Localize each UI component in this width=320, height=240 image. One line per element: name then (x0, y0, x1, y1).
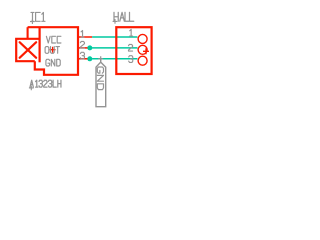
IC1 pin 3 number (80, 52, 84, 59)
connector origin cross (143, 48, 149, 54)
IC1 pin 1 stub (78, 36, 92, 38)
IC1 pin 3 stub (78, 58, 92, 60)
connector pin 2 circle (138, 45, 147, 54)
IC1 left edge segment (38, 27, 40, 62)
connector pin 1 number (130, 29, 133, 36)
GND supply symbol (96, 56, 106, 106)
junction dot net 3 (87, 56, 92, 61)
hall element top connection stub (27, 27, 29, 39)
wire net 2 (OUT) (92, 47, 137, 49)
wire net 1 (VCC) (92, 36, 137, 38)
pin name VCC (46, 36, 61, 43)
connector pin 3 circle (138, 56, 147, 65)
IC1 hall-element crossed square (16, 39, 39, 61)
IC1 pin 1 number (81, 31, 84, 38)
connector X1 body (116, 27, 151, 74)
IC1 origin cross (50, 47, 56, 53)
pin name OUT (45, 47, 59, 54)
IC1 pin 2 number (80, 41, 84, 48)
IC1 value label A1323LH (29, 80, 61, 90)
connector pin 3 number (129, 56, 133, 63)
connector pin 1 circle (138, 34, 147, 43)
wire net 3 (GND) (92, 58, 137, 60)
pin name GND (46, 59, 60, 66)
connector HALL label (113, 12, 134, 23)
IC1 body outline (top, right, partial bottom, partial left) (28, 27, 78, 75)
IC1 pin 2 stub (78, 47, 92, 49)
junction dot net 2 (87, 45, 92, 50)
IC1 reference designator label (30, 12, 45, 24)
connector pin 2 number (129, 44, 133, 51)
